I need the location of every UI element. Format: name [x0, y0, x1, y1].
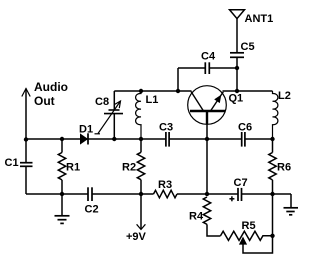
svg-text:R2: R2: [122, 162, 136, 174]
svg-text:C5: C5: [241, 41, 255, 53]
svg-text:L1: L1: [146, 94, 159, 106]
svg-text:C3: C3: [159, 122, 173, 134]
svg-text:R3: R3: [158, 179, 172, 191]
svg-text:C1: C1: [5, 157, 19, 169]
svg-text:R5: R5: [242, 220, 256, 232]
svg-text:+9V: +9V: [126, 231, 147, 243]
svg-text:C4: C4: [201, 51, 216, 63]
svg-text:R6: R6: [277, 162, 291, 174]
svg-text:Audio: Audio: [34, 80, 68, 94]
svg-text:C8: C8: [95, 96, 109, 108]
svg-text:D1: D1: [79, 124, 93, 136]
svg-text:Out: Out: [34, 94, 55, 108]
svg-text:R4: R4: [189, 211, 204, 223]
svg-text:C2: C2: [85, 204, 99, 216]
svg-text:C7: C7: [234, 177, 248, 189]
svg-text:L2: L2: [278, 90, 291, 102]
svg-text:ANT1: ANT1: [245, 13, 274, 25]
svg-text:Q1: Q1: [229, 93, 244, 105]
svg-text:C6: C6: [238, 122, 252, 134]
svg-text:R1: R1: [66, 162, 80, 174]
